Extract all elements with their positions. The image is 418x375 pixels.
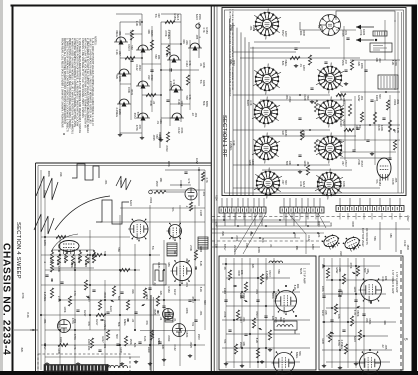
tube V7 video det (252, 133, 280, 164)
svg-text:2. TUNER ALIGNMENT SEE SERVICE: 2. TUNER ALIGNMENT SEE SERVICE DATA PAGE… (231, 9, 234, 91)
sweep section box border (36, 162, 212, 164)
svg-text:6SN7: 6SN7 (360, 161, 364, 168)
svg-text:120K: 120K (57, 266, 61, 272)
svg-text:1200: 1200 (251, 159, 255, 165)
svg-text:.0025: .0025 (189, 341, 193, 348)
strip zone diagonals (236, 213, 326, 254)
svg-text:18K: 18K (384, 276, 388, 281)
svg-text:.22: .22 (152, 101, 156, 105)
tube V22 hv rect (173, 324, 186, 337)
svg-text:150K: 150K (274, 317, 278, 323)
svg-text:.005: .005 (384, 344, 388, 350)
svg-text:47K: 47K (340, 290, 344, 295)
IF box2 resistors (326, 266, 361, 354)
svg-text:120K: 120K (118, 76, 122, 82)
svg-text:4.7K: 4.7K (188, 94, 192, 100)
svg-text:100K: 100K (63, 306, 67, 312)
svg-text:22K: 22K (251, 264, 255, 269)
svg-text:.0025: .0025 (77, 255, 81, 262)
svg-text:1500: 1500 (242, 293, 246, 299)
svg-text:.001: .001 (43, 319, 47, 325)
svg-text:.0033: .0033 (149, 197, 153, 204)
svg-text:1200: 1200 (321, 338, 325, 344)
IF box1 caps/grounds (224, 296, 272, 368)
RF box right side vertical wires (336, 20, 400, 165)
svg-text:10K: 10K (242, 341, 246, 346)
svg-text:120K: 120K (380, 125, 384, 131)
notes text block (60, 36, 96, 134)
svg-text:.001: .001 (194, 112, 198, 118)
svg-text:560: 560 (306, 96, 310, 101)
waveform scope traces (34, 164, 131, 234)
svg-text:R184: R184 (205, 28, 209, 35)
section divider vertical double line (210, 6, 212, 372)
IF box1 labels (223, 264, 302, 359)
svg-text:150K: 150K (198, 14, 202, 20)
svg-text:100K: 100K (257, 247, 261, 253)
svg-text:2.2MEG: 2.2MEG (340, 340, 344, 350)
audio stage V204 (136, 45, 150, 53)
svg-text:3.3K: 3.3K (232, 140, 236, 146)
terminal strip A bottom view (219, 207, 266, 213)
svg-text:IMEG: IMEG (284, 60, 288, 67)
IF box2 wires (322, 258, 396, 368)
svg-text:1/2W: 1/2W (195, 158, 199, 165)
IF amplifier box 1 border (219, 256, 316, 370)
svg-text:.001: .001 (103, 343, 107, 349)
sweep top right extras (165, 158, 209, 186)
page frame top line (11, 5, 415, 7)
svg-text:.0033: .0033 (165, 145, 169, 152)
IF box1 pot arrows (233, 285, 263, 331)
antenna terminal arrows (356, 25, 392, 52)
svg-text:100K: 100K (167, 161, 171, 167)
strip zone extra horizontals (212, 219, 330, 239)
svg-text:BOTTOM VIEW: BOTTOM VIEW (361, 228, 365, 247)
sweep caps and grounds (45, 275, 198, 368)
svg-text:1/2W: 1/2W (252, 25, 256, 32)
svg-text:C142: C142 (87, 257, 91, 264)
svg-text:1/2W: 1/2W (118, 109, 122, 116)
IF box2 labels (321, 262, 388, 350)
tube V21 damper (58, 320, 71, 333)
svg-text:.0033: .0033 (150, 74, 154, 81)
svg-text:330: 330 (157, 13, 161, 18)
scan edge shading left (0, 0, 3, 375)
IF box1 junction dots (225, 263, 297, 363)
svg-text:.001: .001 (104, 180, 108, 186)
svg-text:120K: 120K (43, 240, 47, 246)
bottom view tube socket ovals (322, 233, 341, 251)
svg-text:CHASSIS NO. 2233-4: CHASSIS NO. 2233-4 (1, 243, 12, 355)
svg-text:C108: C108 (199, 210, 203, 217)
svg-text:1200: 1200 (302, 65, 306, 71)
audio stage V208 (169, 85, 183, 93)
svg-text:.047: .047 (293, 233, 297, 239)
svg-text:1 ST IF AMP: 1 ST IF AMP (303, 268, 307, 284)
svg-text:10K: 10K (337, 314, 341, 319)
svg-text:560: 560 (117, 296, 121, 301)
sweep horizontal rails (41, 190, 205, 357)
sweep junction dots (40, 236, 196, 346)
terminal strip C (336, 206, 404, 212)
tube V19 sweep (185, 188, 197, 200)
svg-text:18K: 18K (157, 55, 161, 60)
svg-text:.0033: .0033 (138, 64, 142, 71)
left margin stubs (14, 293, 38, 353)
svg-text:6SN7: 6SN7 (342, 119, 346, 126)
page frame left line (12, 5, 14, 372)
svg-text:C108: C108 (138, 19, 142, 26)
svg-text:18K: 18K (159, 178, 163, 183)
svg-text:22K: 22K (338, 267, 342, 272)
svg-text:4.7K: 4.7K (396, 128, 400, 134)
svg-text:6SN7: 6SN7 (255, 312, 259, 319)
svg-text:6AL5: 6AL5 (129, 200, 133, 207)
svg-text:.001: .001 (185, 282, 189, 288)
svg-text:47K: 47K (329, 222, 333, 227)
page frame right bar (412, 5, 418, 372)
svg-text:R184: R184 (284, 130, 288, 137)
hatched coil block 1 (167, 243, 177, 256)
svg-text:.0033: .0033 (167, 335, 171, 342)
deflection yoke dashed box (38, 354, 130, 373)
svg-text:6AL5: 6AL5 (176, 14, 180, 21)
waveform callout box (153, 264, 166, 285)
dashed alignment line (212, 216, 410, 218)
svg-text:47K: 47K (145, 320, 149, 325)
tube V17 sweep (128, 219, 148, 242)
sweep extra labels (49, 246, 203, 345)
svg-text:100K: 100K (180, 100, 184, 106)
svg-text:.0033: .0033 (103, 292, 107, 299)
resistor R against V19 grid (149, 167, 206, 211)
svg-text:C142: C142 (302, 131, 306, 138)
svg-text:470K: 470K (56, 259, 60, 265)
audio stage V201 (114, 37, 128, 45)
tube V18 sweep (167, 223, 182, 241)
svg-text:56K: 56K (373, 236, 377, 241)
svg-text:.22: .22 (153, 282, 157, 286)
svg-text:.0025: .0025 (152, 134, 156, 141)
svg-text:39K: 39K (296, 284, 300, 289)
svg-text:100K: 100K (360, 63, 364, 69)
svg-text:.001: .001 (199, 310, 203, 316)
sweep pot arrows (51, 266, 197, 322)
svg-text:1200: 1200 (87, 339, 91, 345)
svg-text:1/2W: 1/2W (147, 347, 151, 354)
svg-text:R163: R163 (167, 287, 171, 294)
svg-text:18K: 18K (167, 262, 171, 267)
audio stage V207 (167, 55, 181, 63)
svg-text:680K: 680K (356, 310, 360, 316)
svg-text:6SN7: 6SN7 (406, 216, 409, 223)
svg-text:82K: 82K (221, 232, 225, 237)
svg-text:2.2MEG: 2.2MEG (167, 30, 171, 40)
svg-text:C142: C142 (307, 235, 311, 242)
svg-text:1500: 1500 (351, 221, 355, 227)
svg-text:150K: 150K (185, 331, 189, 337)
svg-text:1 ST AUDIO AMP: 1 ST AUDIO AMP (395, 272, 399, 293)
svg-text:100K: 100K (202, 62, 206, 68)
svg-text:6SN7: 6SN7 (223, 244, 227, 251)
svg-text:2.2MEG: 2.2MEG (233, 245, 237, 255)
sweep inner divider (150, 295, 152, 371)
svg-text:R184: R184 (215, 195, 218, 201)
svg-text:4.7K: 4.7K (73, 291, 77, 297)
svg-text:.001: .001 (49, 256, 53, 262)
svg-text:47K: 47K (87, 321, 91, 326)
tube V4 1st IF (316, 63, 344, 94)
tube V8 video amp (316, 133, 344, 164)
svg-text:2.2MEG: 2.2MEG (103, 320, 107, 330)
svg-text:33K: 33K (131, 289, 135, 294)
tube V1 RF amp (253, 9, 281, 40)
svg-text:.01: .01 (269, 244, 273, 248)
svg-text:4.7K: 4.7K (205, 177, 209, 183)
svg-text:1500: 1500 (197, 334, 201, 340)
svg-text:39K: 39K (321, 264, 325, 269)
svg-text:100K: 100K (394, 60, 398, 66)
audio stage V209 (170, 113, 184, 121)
svg-text:680K: 680K (47, 171, 51, 177)
IF box2 junction dots (323, 265, 372, 351)
svg-text:56K: 56K (249, 231, 253, 236)
tube V13 2nd IF amp (272, 351, 295, 375)
terminal circle J2 (196, 24, 200, 28)
svg-text:22K: 22K (185, 40, 189, 45)
svg-text:4.7K: 4.7K (188, 60, 192, 66)
svg-text:6SN7: 6SN7 (43, 343, 47, 350)
svg-text:560: 560 (293, 330, 297, 335)
svg-text:R184: R184 (362, 29, 366, 36)
svg-text:47K: 47K (138, 124, 142, 129)
svg-text:10K: 10K (87, 346, 91, 351)
svg-text:.047: .047 (118, 51, 122, 57)
svg-text:560: 560 (203, 300, 207, 305)
tube V14 video IF (359, 278, 382, 304)
svg-text:.001: .001 (202, 191, 206, 197)
RF box resistors (290, 55, 392, 175)
svg-text:R217: R217 (173, 289, 177, 296)
svg-text:.001: .001 (360, 95, 364, 101)
svg-text:5025: 5025 (299, 268, 303, 275)
yoke coil bumps (110, 365, 128, 368)
svg-text:56K: 56K (277, 269, 281, 274)
svg-text:OF SOCKETS: OF SOCKETS (365, 228, 369, 245)
svg-text:150K: 150K (129, 339, 133, 345)
svg-text:6SN7: 6SN7 (344, 160, 348, 167)
svg-text:33K: 33K (161, 345, 165, 350)
second dashed line (212, 240, 330, 242)
svg-text:22K: 22K (159, 291, 163, 296)
RF box right border inner wires (398, 12, 402, 193)
page frame bottom bar (0, 371, 418, 375)
svg-text:3.3K: 3.3K (249, 100, 253, 106)
svg-text:270K: 270K (189, 245, 193, 251)
svg-text:82K: 82K (133, 343, 137, 348)
IF box1 resistors (228, 270, 271, 358)
svg-text:150K: 150K (368, 318, 372, 324)
svg-text:1200: 1200 (353, 286, 357, 292)
oval socket pin dots (322, 234, 361, 249)
IF transformer T12 box (274, 321, 297, 330)
svg-text:2.2MEG: 2.2MEG (43, 292, 47, 302)
svg-text:56K: 56K (117, 322, 121, 327)
svg-text:C142: C142 (173, 344, 177, 351)
tube V20 sweep (170, 260, 191, 284)
strip zone labels (221, 221, 407, 256)
svg-text:.001: .001 (396, 99, 400, 105)
svg-text:270K: 270K (21, 293, 25, 299)
RF box horizontal bus wires (233, 42, 400, 188)
svg-text:8.2K: 8.2K (199, 261, 203, 267)
svg-text:.0025: .0025 (320, 25, 324, 32)
terminal strip B (280, 207, 324, 213)
svg-text:100K: 100K (321, 286, 325, 292)
svg-text:4.7K: 4.7K (73, 344, 77, 350)
svg-text:39K: 39K (185, 258, 189, 263)
RF box capacitors and grounds (294, 48, 374, 174)
svg-text:270K: 270K (57, 296, 61, 302)
strip zone drop wires (212, 198, 410, 252)
IF box2 pot arrows (330, 271, 361, 335)
svg-text:1500: 1500 (302, 30, 306, 36)
tube V2 mixer (light socket view) (320, 15, 341, 36)
hatched coil block 2 (198, 237, 208, 249)
svg-text:6AL5: 6AL5 (302, 181, 306, 188)
svg-text:1200: 1200 (119, 347, 123, 353)
svg-text:39K: 39K (320, 177, 324, 182)
svg-text:R184: R184 (202, 80, 206, 87)
svg-text:330: 330 (378, 58, 382, 63)
svg-text:8.2K: 8.2K (199, 287, 203, 293)
svg-text:6AL5: 6AL5 (353, 336, 357, 343)
svg-text:IMEG: IMEG (73, 262, 77, 269)
svg-text:560: 560 (378, 94, 382, 99)
svg-text:8.2K: 8.2K (143, 336, 147, 342)
svg-text:.001: .001 (118, 31, 122, 37)
audio detector chain wires (116, 14, 199, 138)
audio section capacitors (118, 60, 172, 142)
V2 loop wire (336, 11, 395, 22)
svg-text:IMEG: IMEG (274, 293, 278, 300)
tube V16 vert osc oval (59, 241, 79, 255)
svg-text:IMEG: IMEG (123, 319, 127, 326)
svg-text:R184: R184 (199, 246, 203, 253)
svg-text:10K: 10K (288, 161, 292, 166)
svg-text:R184: R184 (157, 262, 161, 269)
svg-text:.22: .22 (131, 319, 135, 323)
svg-text:330: 330 (339, 251, 343, 256)
svg-text:470K: 470K (349, 262, 353, 268)
svg-text:560: 560 (115, 334, 119, 339)
svg-text:100K: 100K (185, 308, 189, 314)
RF box vertical bus wires (230, 19, 254, 196)
tube V3 osc (253, 64, 281, 95)
svg-text:R217: R217 (83, 310, 87, 317)
audio section value labels (115, 13, 209, 141)
svg-text:1/2W: 1/2W (59, 337, 63, 344)
audio stage V205 (136, 81, 150, 89)
svg-text:SECTION 1 RF: SECTION 1 RF (221, 115, 227, 158)
svg-text:8.2K: 8.2K (26, 312, 30, 318)
svg-text:R184: R184 (378, 180, 382, 187)
svg-text:6AL5: 6AL5 (109, 306, 113, 313)
svg-text:4.7K: 4.7K (187, 178, 191, 184)
RF section box border (222, 8, 406, 196)
svg-text:.001: .001 (255, 289, 259, 295)
svg-text:.0033: .0033 (288, 96, 292, 103)
svg-text:39K: 39K (383, 320, 387, 325)
yoke connector comb (44, 365, 108, 372)
svg-text:.01: .01 (223, 266, 227, 270)
svg-text:.005: .005 (394, 177, 398, 183)
audio stage V203 (117, 99, 131, 107)
IF box1 wires (222, 258, 310, 368)
svg-text:1200: 1200 (57, 348, 61, 354)
svg-text:680K: 680K (205, 101, 209, 107)
IF box1 coil L12 (269, 261, 283, 263)
svg-text:100K: 100K (342, 181, 346, 187)
svg-text:560: 560 (130, 45, 134, 50)
svg-text:.001: .001 (73, 318, 77, 324)
svg-text:6SN7: 6SN7 (215, 222, 218, 229)
svg-text:4.7K: 4.7K (172, 79, 176, 85)
svg-text:56K: 56K (298, 351, 302, 356)
audio section resistors (125, 20, 190, 96)
tube V23 (163, 309, 174, 320)
sweep big arc (55, 196, 110, 230)
RF box right ladder components (297, 38, 397, 166)
svg-text:82K: 82K (20, 348, 24, 353)
IF box2 caps/grounds (322, 290, 366, 370)
dashed right border (400, 250, 402, 371)
divider edge labels (215, 195, 410, 250)
hatched block 3 (165, 313, 173, 322)
svg-text:560: 560 (284, 180, 288, 185)
svg-text:.001: .001 (242, 317, 246, 323)
tube V10 sync sep (315, 169, 343, 200)
svg-text:270K: 270K (223, 311, 227, 317)
tube V11 oval envelope near right edge (377, 158, 391, 181)
tube V9 AGC (254, 168, 282, 199)
svg-text:.01: .01 (173, 318, 177, 322)
tube V5 2nd IF (252, 97, 280, 128)
tube V15 audio out (358, 351, 381, 375)
svg-text:1200: 1200 (284, 31, 288, 37)
svg-text:1 ST VIDEO IF AMP: 1 ST VIDEO IF AMP (391, 270, 395, 294)
tube V6 3rd IF (316, 97, 344, 128)
strip drop wires below (224, 213, 400, 220)
strip under labels (223, 220, 321, 254)
sweep resistors (50, 235, 197, 348)
transformer T1 box (378, 75, 398, 89)
svg-text:R184: R184 (223, 288, 227, 295)
svg-text:IMEG: IMEG (57, 321, 61, 328)
svg-text:8.2K: 8.2K (255, 338, 259, 344)
audio stage V202 (117, 69, 131, 77)
svg-text:2.2MEG: 2.2MEG (342, 95, 346, 105)
svg-text:6SN7: 6SN7 (268, 270, 272, 277)
svg-text:R217: R217 (95, 319, 99, 326)
svg-text:18K: 18K (295, 246, 299, 251)
svg-text:330: 330 (215, 244, 218, 249)
svg-text:FROM REAR. COIL RESISTANCE UND: FROM REAR. COIL RESISTANCE UNDER 1 OHM N… (60, 38, 63, 128)
svg-text:.0033: .0033 (232, 59, 236, 66)
svg-text:22K: 22K (240, 270, 244, 275)
audio stage V206 (136, 113, 150, 121)
